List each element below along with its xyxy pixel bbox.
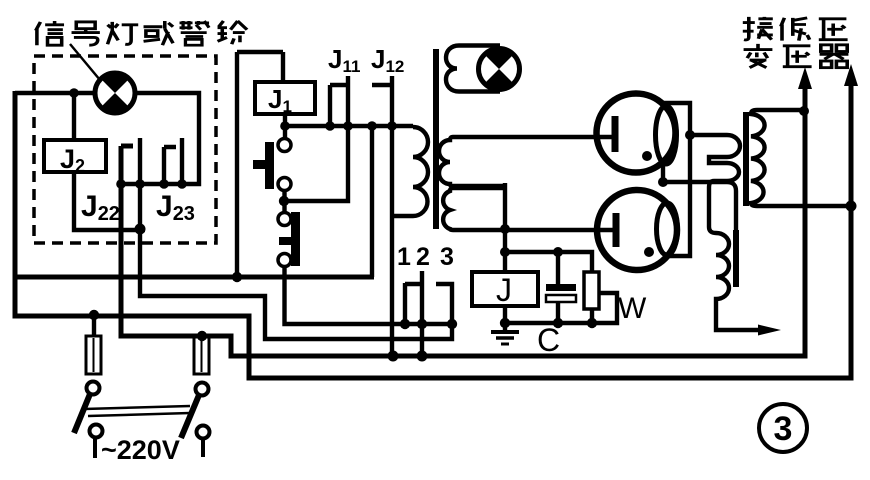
svg-text:~220V: ~220V	[101, 435, 180, 465]
svg-text:2: 2	[416, 243, 430, 271]
svg-text:1: 1	[397, 243, 411, 271]
svg-text:J: J	[496, 272, 512, 308]
svg-text:3: 3	[774, 410, 793, 448]
svg-text:W: W	[618, 292, 647, 325]
svg-text:3: 3	[440, 243, 454, 271]
svg-text:C: C	[537, 322, 560, 358]
